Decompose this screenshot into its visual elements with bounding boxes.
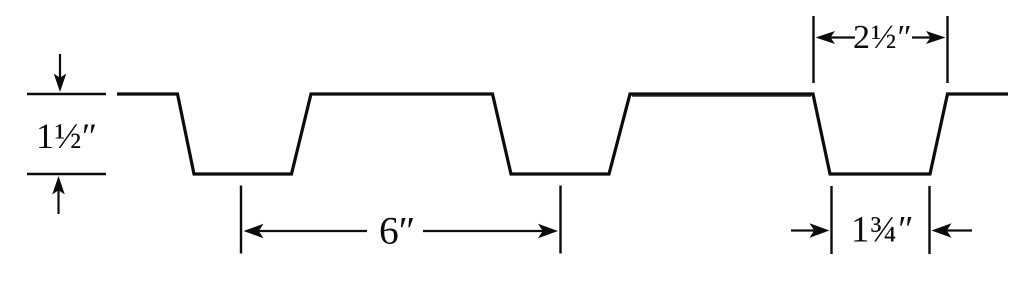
svg-text:1½″: 1½″ [36, 116, 98, 156]
dim 1-3/4 left extension line [830, 186, 832, 254]
dim 2-1/2 left arrowhead (left) [816, 31, 836, 44]
svg-text:6″: 6″ [379, 209, 415, 253]
dim 2-1/2 left extension line [812, 16, 814, 83]
dim 2-1/2 left shaft [829, 36, 856, 38]
dim 1-1/2 upper arrowhead (down) [54, 74, 67, 93]
dim 1-3/4 right arrowhead (left) [932, 223, 952, 237]
dim 2-1/2 right extension line [946, 16, 948, 83]
dim 1-3/4 right extension line [928, 186, 930, 254]
dim 1-1/2 bottom extension line [27, 173, 106, 175]
top flange heavy stretch (scan weight) [632, 95, 811, 97]
dim 1-1/2 upper arrow shaft [59, 54, 61, 80]
dim 6 right extension line [559, 186, 561, 254]
dim 1-1/2 lower arrowhead (up) [52, 176, 65, 195]
dim 2-1/2 right arrowhead (right) [926, 31, 946, 44]
svg-text:2½″: 2½″ [853, 19, 913, 56]
dim 6 right arrowhead (right) [538, 224, 558, 238]
svg-text:1¾″: 1¾″ [851, 209, 914, 250]
deck profile polyline [117, 94, 1008, 174]
dim 1-3/4 left shaft [791, 229, 817, 231]
dim 6 left shaft [256, 230, 367, 232]
dim 1-3/4 left arrowhead (right) [810, 223, 830, 237]
dim 6 left extension line [240, 186, 242, 254]
dim 6 right shaft [423, 230, 545, 232]
dim 1-3/4 right shaft [945, 229, 973, 231]
dim 1-1/2 top extension line [27, 93, 106, 95]
dim 2-1/2 right shaft [912, 36, 933, 38]
dim 6 left arrowhead (left) [244, 224, 264, 238]
dim 1-1/2 lower arrow shaft [57, 189, 59, 215]
